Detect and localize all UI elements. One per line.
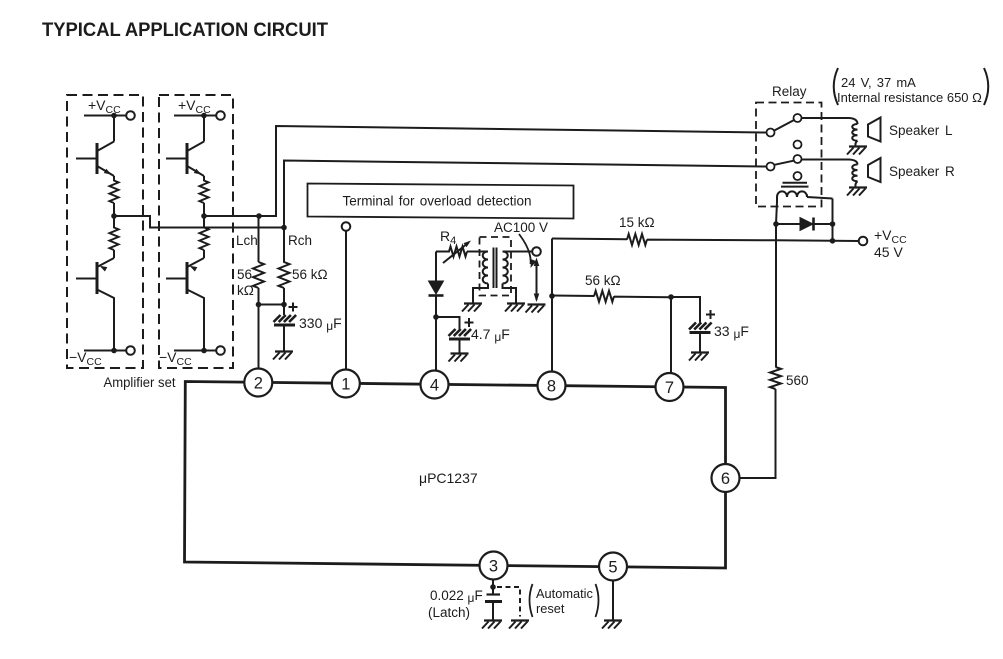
capacitor 0.022uF [485,595,502,602]
wire amp1 output to Rch node and relay pole2 [114,161,767,228]
wire Lch to pin2 [258,288,260,369]
resistor upper [200,176,209,216]
ground transformer secondary [505,304,525,312]
resistor upper [110,176,119,216]
diode D1 [429,281,444,296]
relay pole1 arm [774,120,793,130]
wire relay pole1 to speaker L [802,118,858,124]
svg-text:33 μF: 33 μF [714,323,749,341]
relay pole1 NO contact [794,114,802,122]
svg-text:Amplifier set: Amplifier set [104,375,176,390]
svg-text:AC100 V: AC100 V [494,220,548,235]
wire relay pole2 to speaker R [802,160,858,165]
ground pin3 cap [482,621,502,629]
svg-text:7: 7 [665,379,674,397]
wire collector [203,116,205,142]
relay core [781,183,809,187]
svg-text:reset: reset [536,601,565,616]
transistor PNP bottom [166,258,204,350]
svg-text:Rch: Rch [288,233,312,248]
relay pole2 NC contact [794,172,802,180]
capacitor 4.7uF [449,329,472,339]
svg-text:3: 3 [489,557,498,575]
relay pole2 arm [774,161,793,165]
svg-text:TYPICAL APPLICATION CIRCUIT: TYPICAL APPLICATION CIRCUIT [42,19,328,41]
wire primary bottom to ground [473,284,488,303]
relay pole2 common contact [767,163,775,171]
svg-text:15 kΩ: 15 kΩ [619,215,655,230]
svg-text:(Latch): (Latch) [428,605,470,620]
svg-text:Relay: Relay [772,84,807,99]
svg-text:45 V: 45 V [874,244,903,260]
svg-text:6: 6 [721,470,730,488]
+VCC rail and terminal [174,115,216,117]
wire R4 to diode [435,252,437,282]
node Lch-Rch link [259,304,285,306]
svg-text:Speaker R: Speaker R [889,164,955,179]
wire VCC column to 560 [775,240,777,367]
IC uPC1237 box [185,382,726,569]
plus sign 33uF [706,310,715,319]
IC pin 6 [712,464,740,492]
IC pin 2 [244,369,272,397]
relay spec note [834,68,989,105]
amplifier dashed box [67,95,143,368]
wire speaker R to ground [855,181,857,186]
dashed automatic reset branch [497,587,520,617]
wire amp2 output to relay pole1 [204,126,767,216]
svg-text:μPC1237: μPC1237 [419,470,478,486]
resistor R4 (variable) [436,243,488,263]
IC pin 3 [480,552,508,580]
wire pin8 column [551,239,553,372]
output node [111,213,117,219]
IC pin 4 [421,371,449,399]
wire to 33uF [671,297,700,323]
svg-text:4: 4 [430,376,439,394]
svg-text:560: 560 [786,373,809,388]
speaker R coil [852,165,857,182]
speaker L horn [868,118,881,142]
transistor PNP bottom [76,258,114,350]
wire pin5 to ground [612,581,614,620]
transistor NPN top [76,142,114,177]
-VCC rail and terminal [84,350,126,352]
speaker L coil [852,124,857,141]
svg-text:8: 8 [547,377,556,395]
svg-text:Lch: Lch [236,233,258,248]
relay pole2 NO contact [794,155,802,163]
+VCC rail and terminal [84,115,126,117]
ground transformer primary [462,304,482,312]
capacitor 330uF [274,315,297,325]
svg-text:56 kΩ: 56 kΩ [585,273,621,288]
AC voltage double arrow [536,260,538,300]
resistor 56k pin8-pin7 [552,291,671,302]
wire node to 4.7uF [436,317,460,329]
IC pin 8 [538,372,566,400]
wire Rch to cap [283,305,285,316]
plus sign 4.7uF [465,318,474,327]
resistor lower [200,216,209,258]
wire to pin7 [670,297,672,373]
resistor 560 [770,367,781,389]
resistor 15k [552,234,859,245]
svg-text:56: 56 [237,267,252,282]
svg-text:56 kΩ: 56 kΩ [292,267,328,282]
svg-text:Internal resistance 650 Ω: Internal resistance 650 Ω [837,90,982,105]
-VCC rail and terminal [174,350,216,352]
relay pole1 NC contact [794,141,802,149]
wire 33uF to ground [699,333,701,352]
relay dashed box [756,103,822,207]
resistor 56k Rch [279,228,290,305]
svg-text:Terminal for overload detectio: Terminal for overload detection [342,194,531,209]
wire cap to ground [492,602,494,620]
svg-text:kΩ: kΩ [237,283,254,298]
ground 330uF [273,352,293,360]
capacitor 33uF [689,323,712,333]
leader arc AC100V [519,234,531,264]
relay pole1 common contact [767,129,775,137]
transformer core [494,248,497,289]
IC pin 7 [656,373,684,401]
wire Lch column [258,216,260,262]
svg-text:0.022 μF: 0.022 μF [430,588,483,605]
wire terminal to pin1 [345,231,347,370]
svg-text:4.7 μF: 4.7 μF [471,326,510,344]
label box: Terminal for overload detection [308,184,574,219]
svg-text:Speaker L: Speaker L [889,123,953,138]
ground speaker R [847,188,867,196]
wire pin3 down [492,580,494,595]
ground 4.7uF [449,354,469,362]
ground AC arrow [526,305,546,313]
wire coil left lead down [776,202,777,241]
ground speaker L [847,147,867,155]
wire coil right lead down [832,199,834,241]
transformer secondary winding [503,252,508,284]
wire 560 to pin6 [740,389,776,478]
wire secondary bottom to ground [503,284,517,303]
wire node to pin4 [435,317,437,371]
Automatic reset note [530,584,599,617]
wire cap to ground [283,326,285,352]
ground pin5 [602,621,622,629]
speaker R horn [868,158,881,182]
svg-text:5: 5 [608,558,617,576]
terminal pin1 detection [342,222,351,231]
svg-text:Automatic: Automatic [536,586,594,601]
svg-text:24 V, 37 mA: 24 V, 37 mA [841,75,916,90]
IC pin 5 [599,553,627,581]
diode D2 flyback [776,218,833,231]
svg-text:330 μF: 330 μF [299,315,342,333]
transformer primary winding [483,252,488,284]
transformer dashed box [480,237,512,296]
plus sign 330uF [289,303,298,312]
wire 4.7uF to ground [459,340,461,353]
relay coil [777,191,833,202]
resistor 56k Lch [253,262,264,288]
wire collector [113,116,115,142]
amplifier dashed box [159,95,233,368]
output node [201,213,207,219]
transistor NPN top [166,142,204,177]
wire speaker L to ground [855,141,857,146]
ground automatic reset [509,621,529,629]
wire secondary top to AC terminal [503,251,533,253]
svg-text:2: 2 [254,374,263,392]
IC pin 1 [332,370,360,398]
wire diode to node [435,296,437,318]
terminal +VCC [859,237,868,246]
resistor lower [110,216,119,258]
svg-text:1: 1 [341,375,350,393]
ground 33uF [689,353,709,361]
